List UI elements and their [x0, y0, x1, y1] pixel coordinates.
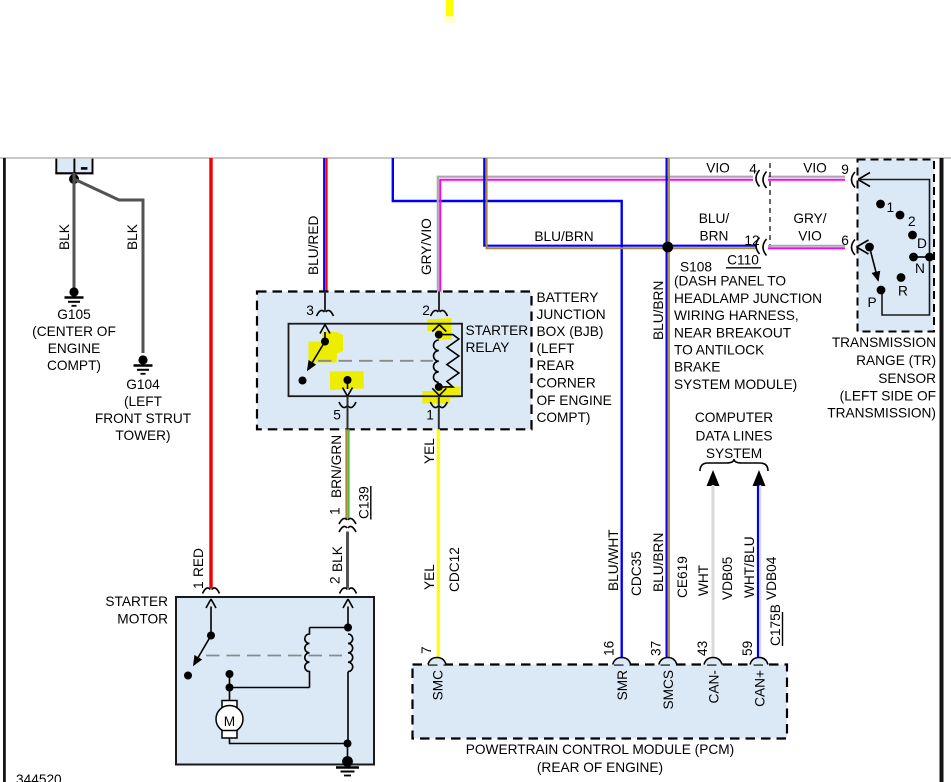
- svg-text:S108: S108: [680, 260, 712, 275]
- yellow highlighter mark top of page: [446, 0, 453, 17]
- svg-text:C139: C139: [357, 486, 372, 519]
- label COMPUTER DATA LINES SYSTEM: [695, 410, 773, 461]
- connector at motor pin 2: [340, 588, 357, 594]
- svg-text:SMCS: SMCS: [661, 670, 676, 710]
- PCM pin 43 bump: [704, 658, 722, 665]
- svg-text:2: 2: [422, 303, 430, 318]
- svg-text:JUNCTION: JUNCTION: [537, 307, 606, 322]
- svg-text:43: 43: [695, 640, 710, 656]
- wire GRY/VIO from C110-12 to TR pin 6: [768, 246, 845, 249]
- C110 dashed connector line: [769, 163, 771, 247]
- svg-text:COMPUTER: COMPUTER: [695, 410, 773, 425]
- wire BLU/BRN from top to S108 horizontal run: [484, 158, 757, 248]
- svg-text:CAN-: CAN-: [707, 670, 722, 703]
- PCM pin 37 bump: [659, 658, 677, 665]
- svg-text:5: 5: [333, 408, 341, 423]
- wire BLU/RED to relay pin 3: [324, 158, 326, 292]
- connector at motor pin 1: [203, 588, 220, 594]
- field coil 1: [305, 628, 310, 688]
- wire BRN/GRN from relay pin 5 to C139: [346, 429, 348, 519]
- relay pin 5 contact and lead: [343, 376, 353, 429]
- label G105: [32, 307, 116, 373]
- starter relay box: [289, 324, 463, 397]
- PCM pin 16 bump: [613, 658, 631, 665]
- diagram top border: [0, 157, 951, 159]
- svg-text:(LEFT: (LEFT: [537, 341, 576, 356]
- wire WHT to PCM pin 43: [712, 485, 715, 658]
- svg-text:COMPT): COMPT): [537, 410, 591, 425]
- PCM pin 59 bump: [750, 658, 768, 665]
- wire YEL from relay pin 1 to PCM pin 7: [437, 429, 440, 658]
- svg-text:GRY/: GRY/: [793, 211, 826, 226]
- transmission range sensor dashed box: [858, 160, 935, 332]
- svg-text:NEAR BREAKOUT: NEAR BREAKOUT: [674, 326, 792, 341]
- svg-text:SMC: SMC: [431, 670, 446, 701]
- wire WHT/BLU to PCM pin 59: [758, 485, 760, 658]
- svg-text:BLU/: BLU/: [699, 211, 730, 226]
- motor pin 2 lead with arrow: [343, 599, 353, 632]
- svg-text:BRN/GRN: BRN/GRN: [329, 435, 344, 498]
- svg-text:VDB04: VDB04: [764, 556, 779, 600]
- svg-text:2: 2: [328, 576, 343, 584]
- svg-text:M: M: [224, 714, 235, 729]
- svg-text:TO ANTILOCK: TO ANTILOCK: [674, 343, 764, 358]
- svg-text:2: 2: [908, 214, 916, 229]
- svg-text:G105: G105: [57, 307, 91, 322]
- svg-text:VIO: VIO: [803, 161, 827, 176]
- svg-text:BLK: BLK: [330, 546, 345, 572]
- svg-text:CDC12: CDC12: [447, 547, 462, 592]
- svg-text:1: 1: [191, 581, 206, 589]
- diagram right border: [940, 158, 944, 782]
- svg-text:FRONT STRUT: FRONT STRUT: [95, 411, 192, 426]
- PCM pin 7 bump: [428, 658, 446, 665]
- node motor ground junction: [344, 740, 352, 748]
- svg-text:SENSOR: SENSOR: [878, 371, 936, 386]
- connector at relay pin 1: [430, 402, 447, 408]
- battery negative terminal box: [55, 159, 93, 174]
- wire BLU/WHT: from top, over to PCM pin 16: [393, 158, 622, 658]
- connector arc TR pin 6: [852, 240, 856, 256]
- TR pin 9 arrow: [858, 173, 870, 187]
- node: battery junction dot: [69, 174, 79, 184]
- svg-text:DATA LINES: DATA LINES: [695, 429, 772, 444]
- svg-text:1: 1: [426, 408, 434, 423]
- label G104: [95, 377, 192, 443]
- wire BLK from battery to G104: [74, 179, 143, 353]
- highlight mark on relay pin 2 / coil top: [428, 318, 452, 340]
- svg-text:RED: RED: [191, 548, 206, 577]
- label GRY/ VIO: [793, 211, 826, 244]
- svg-text:BATTERY: BATTERY: [537, 290, 599, 305]
- motor switch: [184, 599, 216, 680]
- PCM dashed box: [413, 665, 788, 739]
- svg-text:STARTER: STARTER: [105, 594, 168, 609]
- svg-text:MOTOR: MOTOR: [117, 612, 168, 627]
- svg-text:GRY/VIO: GRY/VIO: [419, 218, 434, 275]
- label BATTERY JUNCTION BOX: [537, 290, 612, 425]
- connector C110 pin 4: [756, 170, 767, 188]
- motor M symbol: [216, 701, 243, 739]
- relay pin 2 lead inside BJB: [438, 292, 440, 312]
- svg-text:BLU/RED: BLU/RED: [306, 216, 321, 275]
- TR switch arm: [865, 243, 874, 252]
- svg-text:RANGE (TR): RANGE (TR): [856, 353, 936, 368]
- svg-text:3: 3: [306, 303, 314, 318]
- svg-text:7: 7: [419, 646, 434, 654]
- svg-text:(LEFT: (LEFT: [124, 394, 163, 409]
- svg-text:BLU/WHT: BLU/WHT: [606, 529, 621, 591]
- TR position contacts: [876, 200, 885, 209]
- wire pin2 branch down: [347, 672, 349, 744]
- svg-text:1: 1: [328, 507, 343, 515]
- svg-text:RELAY: RELAY: [466, 340, 510, 355]
- svg-text:C110: C110: [727, 253, 759, 268]
- diagram left border: [3, 158, 6, 782]
- svg-text:CORNER: CORNER: [537, 376, 596, 391]
- svg-text:BRN: BRN: [700, 229, 729, 244]
- wire GRY/VIO from relay pin 2 up and right (VIO run to TR pin 9): [438, 177, 845, 292]
- svg-text:CDC35: CDC35: [629, 551, 644, 596]
- wire to field coil 1: [310, 627, 349, 629]
- node motor contact lower dot: [226, 684, 234, 692]
- svg-text:CAN+: CAN+: [753, 670, 768, 707]
- svg-text:C175B: C175B: [768, 604, 783, 646]
- svg-text:VDB05: VDB05: [720, 556, 735, 600]
- svg-text:TOWER): TOWER): [115, 428, 170, 443]
- svg-text:VIO: VIO: [798, 229, 822, 244]
- node coil bottom: [435, 383, 443, 391]
- node coil top: [435, 331, 443, 339]
- highlight mark on relay pin 1 / coil bottom: [423, 386, 461, 404]
- relay pin 1 lead: [438, 396, 440, 429]
- svg-text:6: 6: [841, 233, 849, 248]
- battery junction box BJB dashed box: [257, 292, 532, 430]
- wire coil1 to motor contact: [230, 687, 310, 689]
- svg-text:TRANSMISSION): TRANSMISSION): [827, 406, 936, 421]
- svg-text:BRAKE: BRAKE: [674, 360, 720, 375]
- label TRANSMISSION RANGE SENSOR: [827, 335, 936, 421]
- node motor contact upper dot: [226, 670, 234, 678]
- arrow to data line CAN+: [753, 470, 766, 486]
- svg-text:HEADLAMP JUNCTION: HEADLAMP JUNCTION: [674, 291, 822, 306]
- svg-text:59: 59: [740, 641, 755, 656]
- connector C110 pin 12: [756, 238, 767, 256]
- svg-text:G104: G104: [126, 377, 160, 392]
- relay switch arm: [299, 325, 331, 385]
- svg-text:ENGINE: ENGINE: [48, 341, 100, 356]
- svg-text:(LEFT SIDE OF: (LEFT SIDE OF: [840, 389, 936, 404]
- svg-text:9: 9: [841, 162, 849, 177]
- highlight mark on relay switch: [309, 332, 344, 363]
- svg-text:OF ENGINE: OF ENGINE: [537, 393, 612, 408]
- svg-text:BLU/BRN: BLU/BRN: [651, 281, 666, 340]
- svg-text:SMR: SMR: [615, 670, 630, 701]
- relay coil with arrows: [432, 325, 459, 396]
- svg-text:REAR: REAR: [537, 358, 575, 373]
- ground G104: [134, 355, 153, 373]
- svg-text:BOX (BJB): BOX (BJB): [537, 324, 604, 339]
- wire motor to ground: [230, 738, 348, 744]
- svg-text:D: D: [917, 236, 927, 251]
- svg-text:R: R: [898, 284, 908, 299]
- svg-text:SYSTEM MODULE): SYSTEM MODULE): [674, 377, 797, 392]
- relay pin 3 lead inside BJB: [324, 292, 326, 312]
- starter motor box: [176, 597, 374, 765]
- svg-text:4: 4: [749, 162, 757, 177]
- wire RED to starter motor pin 1: [209, 158, 212, 588]
- connector at relay pin 2: [431, 310, 448, 316]
- connector at relay pin 5: [339, 402, 356, 408]
- relay internal dashed link: [318, 360, 433, 362]
- svg-text:STARTER: STARTER: [466, 323, 529, 338]
- svg-text:WHT: WHT: [696, 564, 711, 596]
- svg-text:37: 37: [649, 641, 664, 656]
- wire BLK from battery to G105: [73, 173, 76, 288]
- svg-text:POWERTRAIN CONTROL MODULE (PCM: POWERTRAIN CONTROL MODULE (PCM): [466, 742, 734, 757]
- connector at relay pin 3: [317, 310, 334, 316]
- svg-text:(REAR OF ENGINE): (REAR OF ENGINE): [537, 760, 663, 775]
- svg-text:P: P: [868, 295, 877, 310]
- svg-text:(DASH PANEL TO: (DASH PANEL TO: [674, 274, 786, 289]
- svg-text:VIO: VIO: [706, 161, 730, 176]
- field coil 2: [348, 634, 353, 672]
- node S108 junction dot: [662, 242, 673, 253]
- TR pin 6 arrow: [857, 240, 869, 254]
- ground G105: [65, 287, 84, 305]
- svg-text:YEL: YEL: [422, 438, 437, 464]
- motor case ground: [336, 756, 359, 775]
- svg-text:BLU/BRN: BLU/BRN: [534, 229, 593, 244]
- svg-text:SYSTEM: SYSTEM: [706, 446, 762, 461]
- brace for computer data lines: [700, 459, 768, 471]
- svg-text:BLK: BLK: [57, 224, 72, 250]
- svg-text:N: N: [915, 261, 925, 276]
- svg-text:COMPT): COMPT): [47, 358, 101, 373]
- wire BLU/BRN vertical from top through S108 to PCM pin 37: [667, 158, 669, 658]
- svg-text:CE619: CE619: [675, 556, 690, 598]
- TR sensor inner contour: [860, 180, 930, 316]
- svg-text:344520: 344520: [16, 772, 62, 782]
- svg-text:(CENTER OF: (CENTER OF: [32, 324, 116, 339]
- svg-text:TRANSMISSION: TRANSMISSION: [832, 335, 936, 350]
- svg-text:BLK: BLK: [125, 224, 140, 250]
- connector arc TR pin 9: [852, 172, 856, 188]
- svg-text:1: 1: [887, 200, 895, 215]
- svg-text:WIRING HARNESS,: WIRING HARNESS,: [674, 308, 799, 323]
- label BLU/ BRN (left of C110-12): [699, 211, 730, 244]
- connector C139: [339, 518, 356, 532]
- svg-text:YEL: YEL: [422, 564, 437, 590]
- svg-text:16: 16: [602, 640, 617, 656]
- wire BLK from C139 to starter motor pin 2: [346, 532, 349, 589]
- arrow to data line CAN-: [707, 470, 720, 486]
- label S108 description: [674, 274, 822, 393]
- motor internal dashed link: [206, 655, 342, 657]
- svg-text:BLU/BRN: BLU/BRN: [651, 533, 666, 592]
- svg-text:WHT/BLU: WHT/BLU: [742, 536, 757, 598]
- highlight mark on relay pin 5 contact: [330, 371, 364, 390]
